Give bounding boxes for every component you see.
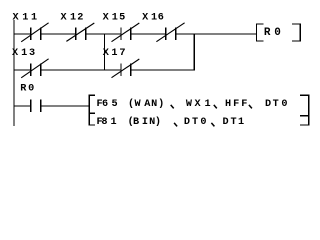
ideographic comma line1 a: [171, 105, 174, 109]
wire rung1 X12 to X15: [85, 33, 121, 34]
svg-text:T: T: [273, 99, 279, 110]
coil R0 right bracket: [300, 23, 301, 41]
junction B vertical: [194, 33, 195, 70]
svg-text:7: 7: [119, 48, 125, 59]
contact R0 bars: [30, 100, 31, 112]
wire rung1 X11 to X12: [40, 33, 76, 34]
contact X16 bars: [165, 28, 166, 40]
wire rung2 rail to X13: [14, 69, 31, 70]
ideographic comma line1 b: [214, 105, 217, 109]
ideographic comma line2 a: [174, 123, 177, 127]
wire rung3 rail to R0 contact: [14, 105, 31, 106]
contact X11 bars: [30, 28, 31, 40]
svg-text:0: 0: [281, 99, 287, 110]
svg-text:1: 1: [31, 13, 37, 24]
wire rung1 rail to X11: [14, 33, 31, 34]
svg-text:0: 0: [28, 83, 34, 94]
svg-text:6: 6: [102, 99, 108, 110]
coil R0 left bracket: [256, 23, 257, 41]
NC slash X13: [21, 59, 48, 78]
left power rail: [13, 20, 14, 126]
svg-text:1: 1: [111, 48, 117, 59]
NC slash X12: [66, 23, 94, 41]
NC slash X16: [156, 23, 184, 42]
svg-text:8: 8: [101, 117, 107, 128]
svg-text:1: 1: [112, 13, 118, 24]
svg-text:): ): [155, 116, 161, 128]
svg-text:R: R: [264, 27, 271, 39]
svg-text:X: X: [195, 99, 202, 110]
svg-text:T: T: [230, 117, 236, 128]
svg-text:1: 1: [204, 99, 210, 110]
svg-text:X: X: [12, 13, 19, 24]
svg-text:X: X: [103, 13, 110, 24]
svg-text:D: D: [265, 99, 271, 110]
junction A vertical: [104, 33, 105, 70]
svg-text:5: 5: [111, 99, 117, 110]
NC slash X15: [112, 23, 140, 42]
svg-text:D: D: [223, 117, 229, 128]
svg-text:H: H: [225, 99, 231, 110]
svg-text:W: W: [134, 99, 141, 110]
contact X17 bars: [120, 64, 121, 76]
svg-text:1: 1: [238, 117, 244, 128]
svg-text:1: 1: [151, 13, 157, 24]
wire rung3 R0 contact to block: [40, 105, 89, 106]
svg-text:): ): [158, 98, 164, 110]
NC slash X11: [21, 23, 48, 42]
NC slash X17: [112, 59, 140, 78]
svg-text:X: X: [103, 48, 110, 59]
function block left bracket: [89, 95, 90, 126]
svg-text:6: 6: [158, 13, 164, 24]
svg-text:X: X: [60, 13, 67, 24]
svg-text:1: 1: [70, 13, 76, 24]
svg-text:F: F: [233, 99, 239, 110]
wire rung2 X17 to junction B: [130, 69, 195, 70]
svg-text:D: D: [184, 117, 190, 128]
svg-text:T: T: [192, 117, 198, 128]
ideographic comma line2 b: [211, 123, 214, 127]
contact X13 bars: [30, 64, 31, 76]
svg-text:X: X: [142, 13, 149, 24]
function block right bracket: [308, 95, 309, 126]
contact X12 bars: [75, 28, 76, 40]
contact X15 bars: [120, 28, 121, 40]
svg-text:2: 2: [77, 13, 83, 24]
svg-text:5: 5: [119, 13, 125, 24]
svg-text:W: W: [186, 99, 193, 110]
wire rung1 X15 to X16: [130, 33, 166, 34]
wire rung1 X16 to coil R0: [175, 33, 256, 34]
svg-text:0: 0: [274, 27, 281, 39]
wire rung2 X13 to X17: [40, 69, 121, 70]
svg-text:B: B: [133, 117, 139, 128]
svg-text:(: (: [128, 98, 134, 110]
ideographic comma line1 c: [249, 105, 252, 109]
svg-text:F: F: [241, 99, 247, 110]
svg-text:1: 1: [22, 13, 28, 24]
svg-text:N: N: [151, 99, 157, 110]
svg-text:I: I: [142, 117, 148, 128]
svg-text:0: 0: [200, 117, 206, 128]
svg-text:R: R: [20, 83, 27, 94]
svg-text:1: 1: [21, 48, 27, 59]
svg-text:1: 1: [110, 117, 116, 128]
svg-text:3: 3: [29, 48, 35, 59]
svg-text:X: X: [12, 48, 19, 59]
